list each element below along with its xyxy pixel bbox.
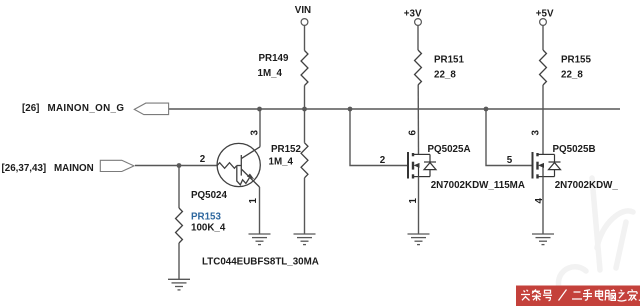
wire PR151 to drain A (crosses rail) xyxy=(417,85,419,154)
wire rail to PR152 xyxy=(304,109,306,143)
body arrow B xyxy=(538,163,544,168)
svg-text:PQ5024: PQ5024 xyxy=(191,190,228,201)
svg-text:2N7002KDW_115MA: 2N7002KDW_115MA xyxy=(431,180,525,191)
ground (PQ5025B source) xyxy=(532,234,554,245)
node junction rail/gateB xyxy=(484,107,489,112)
svg-text:PR152: PR152 xyxy=(271,144,302,155)
wire PR152 to ground xyxy=(304,178,306,234)
transistor U PQ5025A (N-MOSFET) xyxy=(408,152,436,179)
svg-text:[26]: [26] xyxy=(22,103,39,114)
svg-text:2: 2 xyxy=(380,155,386,166)
emitter arrowhead xyxy=(247,174,254,180)
body arrow A xyxy=(414,163,420,168)
flag MAINON_ON_G xyxy=(134,103,168,115)
resistor PR151 xyxy=(415,50,422,85)
svg-text:4: 4 xyxy=(534,198,545,204)
svg-text:[26,37,43]: [26,37,43] xyxy=(2,163,47,174)
wire PR153 drop xyxy=(178,166,180,209)
wire PR153 to ground xyxy=(178,243,180,279)
wire PR155 to drain B (crosses rail) xyxy=(542,85,544,154)
node junction MAINON/PR153 xyxy=(177,163,182,168)
svg-text:2N7002KDW_: 2N7002KDW_ xyxy=(555,180,619,191)
wire MAINON to base xyxy=(135,165,217,167)
svg-text:+3V: +3V xyxy=(404,9,422,20)
wire PR149 to rail xyxy=(304,86,306,110)
wire +3V to PR151 xyxy=(417,25,419,50)
ground (PR152) xyxy=(294,234,316,245)
resistor PR153 xyxy=(176,208,183,243)
transistor U PQ5025B (N-MOSFET) xyxy=(533,152,561,179)
flag MAINON xyxy=(100,160,134,171)
svg-text:MAINON: MAINON xyxy=(54,163,94,174)
svg-text:VIN: VIN xyxy=(295,5,311,16)
watermark big letters ch xyxy=(558,178,633,300)
svg-text:PR149: PR149 xyxy=(259,53,290,64)
ground (PQ5024 emitter) xyxy=(249,234,271,245)
wire rail to collector xyxy=(259,109,261,147)
svg-text:22_8: 22_8 xyxy=(434,70,456,81)
svg-text:5: 5 xyxy=(507,155,513,166)
node junction rail/PR149/PR152 xyxy=(302,107,307,112)
svg-text:PR155: PR155 xyxy=(561,55,592,66)
svg-text:+5V: +5V xyxy=(536,9,554,20)
svg-text:1: 1 xyxy=(408,198,419,204)
svg-text:6: 6 xyxy=(408,130,419,136)
svg-text:MAINON_ON_G: MAINON_ON_G xyxy=(48,103,125,114)
wire source A to ground xyxy=(418,177,420,234)
watermark red badge xyxy=(516,286,640,306)
node junction rail/gateA xyxy=(348,107,353,112)
transistor Q PQ5024 xyxy=(217,143,260,187)
wire gate A drop xyxy=(350,109,408,166)
wire gate B drop xyxy=(486,109,533,166)
ground (PQ5025A source) xyxy=(408,234,430,245)
svg-text:2: 2 xyxy=(200,154,206,165)
wire source B to ground xyxy=(542,177,544,234)
node junction rail/collector xyxy=(257,107,262,112)
resistor PR152 xyxy=(301,143,308,178)
resistor PR155 xyxy=(540,50,547,85)
svg-text:3: 3 xyxy=(531,130,542,136)
watermark badge text strokes xyxy=(521,290,640,302)
svg-text:100K_4: 100K_4 xyxy=(191,223,226,234)
svg-text:3: 3 xyxy=(249,130,260,136)
wire +5V to PR155 xyxy=(542,25,544,50)
svg-text:LTC044EUBFS8TL_30MA: LTC044EUBFS8TL_30MA xyxy=(202,257,319,268)
svg-text:1M_4: 1M_4 xyxy=(258,68,283,79)
svg-text:PQ5025A: PQ5025A xyxy=(428,144,471,155)
resistor PR149 xyxy=(301,51,308,86)
wire emitter to ground xyxy=(259,187,261,234)
ground (PR153) xyxy=(168,279,190,290)
svg-text:PQ5025B: PQ5025B xyxy=(553,144,596,155)
svg-text:1M_4: 1M_4 xyxy=(269,157,294,168)
svg-text:PR153: PR153 xyxy=(191,212,222,223)
wire VIN to PR149 xyxy=(304,25,306,50)
node MAINON_ON_G rail wire xyxy=(169,108,621,110)
svg-text:22_8: 22_8 xyxy=(561,70,583,81)
svg-text:1: 1 xyxy=(248,198,259,204)
svg-text:PR151: PR151 xyxy=(434,55,465,66)
